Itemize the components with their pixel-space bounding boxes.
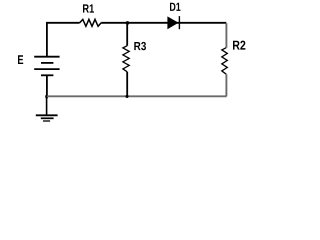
wire R3 to bottom node xyxy=(126,72,128,96)
label R3 xyxy=(134,42,146,50)
node R3 bottom xyxy=(125,95,128,98)
resistor R2 xyxy=(222,48,228,74)
ground stem xyxy=(46,96,48,115)
battery E plate2 short xyxy=(41,62,53,64)
wire junction to R3 xyxy=(126,23,128,46)
ground bar 2 xyxy=(41,117,54,119)
node battery bottom xyxy=(45,95,48,99)
battery E plate3 long xyxy=(34,68,59,70)
ground bar 3 xyxy=(43,120,50,122)
wire left vertical and top-left segment xyxy=(47,23,80,57)
battery E plate1 long xyxy=(34,56,59,58)
label D1 xyxy=(170,3,181,11)
wire R2 to bottom-right corner xyxy=(225,74,227,96)
wire R1 to top-right corner xyxy=(101,22,226,24)
label R2 xyxy=(233,41,245,50)
battery E plate4 short xyxy=(41,74,53,76)
ground bar 1 xyxy=(36,114,58,116)
wire right vertical top xyxy=(225,23,227,48)
diode D1 cathode bar xyxy=(178,16,180,29)
label E xyxy=(18,55,23,64)
resistor R1 xyxy=(80,19,102,26)
wire bottom horizontal xyxy=(47,95,227,97)
wire battery bottom stub xyxy=(46,75,48,96)
resistor R3 xyxy=(123,46,129,72)
label R1 xyxy=(83,4,94,12)
diode D1 xyxy=(168,17,178,29)
node R1/D1/R3 junction xyxy=(126,21,130,25)
